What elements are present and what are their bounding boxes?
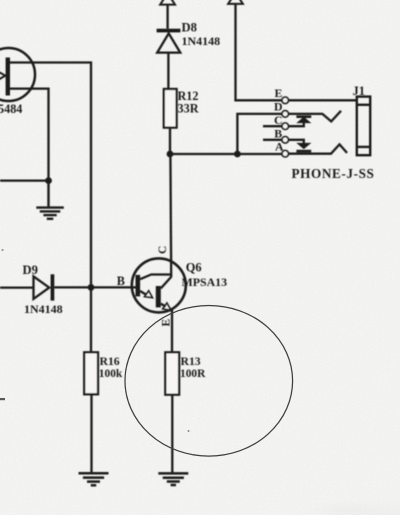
scan speck	[188, 430, 190, 432]
wire node to R16	[90, 287, 92, 352]
pin A of J1	[282, 151, 288, 157]
svg-text:C: C	[274, 113, 283, 127]
svg-text:1N4148: 1N4148	[24, 302, 63, 316]
wire stub pin C	[263, 125, 282, 127]
svg-text:B: B	[274, 126, 282, 140]
transistor Q6 MPSA13 (darlington)	[132, 258, 186, 312]
ring break contact from pin B	[289, 140, 311, 153]
wire source of Q5 to ground	[9, 89, 49, 181]
wire drain of Q5 to node B	[9, 63, 91, 288]
pin B of J1	[282, 137, 288, 143]
connector J1 body	[357, 97, 370, 156]
scan mark left edge	[0, 398, 5, 400]
svg-text:1N4148: 1N4148	[182, 34, 221, 48]
wire D8 to R12	[167, 53, 169, 89]
svg-text:R13: R13	[181, 355, 201, 368]
pin C of J1	[282, 123, 288, 129]
wire arrow down to pin E	[236, 4, 282, 100]
diode D8	[157, 29, 181, 53]
diode D9	[0, 286, 34, 288]
node junction base/R16	[88, 284, 95, 291]
svg-text:Q6: Q6	[186, 260, 202, 274]
node junction at source/ground	[45, 177, 52, 184]
wire pin D to tip contact	[289, 111, 341, 122]
svg-text:E: E	[275, 86, 283, 100]
wire R13 to ground	[171, 395, 173, 473]
wire R16 to ground	[90, 394, 92, 472]
svg-text:D8: D8	[182, 21, 197, 35]
svg-text:E: E	[161, 319, 173, 327]
svg-text:D9: D9	[23, 263, 38, 277]
pin D of J1	[282, 111, 288, 117]
ground (below R16)	[79, 473, 109, 485]
svg-text:PHONE-J-SS: PHONE-J-SS	[292, 166, 375, 181]
ground (below Q5 source)	[36, 181, 64, 219]
wire arrow to D8	[166, 5, 168, 29]
node junction below R12	[167, 151, 174, 158]
resistor R16	[84, 352, 98, 394]
svg-text:J1: J1	[353, 84, 365, 98]
wire emitter of Q6 to R13	[171, 310, 173, 353]
node junction row A	[234, 151, 241, 158]
svg-text:D: D	[274, 100, 283, 114]
svg-text:100R: 100R	[180, 368, 206, 380]
wire D9 to base of Q6	[54, 286, 136, 288]
wire R12 to node	[169, 128, 171, 154]
wire pin E to jack body	[289, 99, 357, 101]
resistor R13	[165, 352, 179, 394]
net arrow (power, above D8)	[160, 0, 175, 5]
wire collector of Q6	[169, 154, 172, 277]
svg-text:5484: 5484	[0, 102, 22, 116]
svg-text:MPSA13: MPSA13	[182, 275, 228, 289]
wire stub to left edge	[0, 179, 49, 181]
ground (below R13)	[158, 473, 188, 485]
tip break contact from pin C	[289, 115, 311, 126]
svg-text:100k: 100k	[99, 368, 123, 380]
wire pin A to ring contact	[289, 144, 347, 153]
svg-text:33R: 33R	[178, 101, 199, 115]
scan speck	[1, 249, 3, 251]
wire pin D to node A	[237, 114, 281, 154]
transistor Q5 2N5484 (JFET, clipped at left edge)	[0, 48, 35, 101]
svg-text:A: A	[275, 140, 284, 154]
net arrow (to pin E net)	[228, 0, 243, 4]
pin E of J1	[282, 97, 288, 103]
resistor R12	[164, 89, 177, 128]
wire node row A	[170, 153, 282, 155]
svg-text:B: B	[117, 274, 125, 288]
wire stub pin B	[263, 139, 282, 141]
svg-text:R16: R16	[100, 355, 120, 368]
annotation circle (hand-drawn)	[125, 306, 293, 457]
svg-text:C: C	[157, 246, 169, 254]
